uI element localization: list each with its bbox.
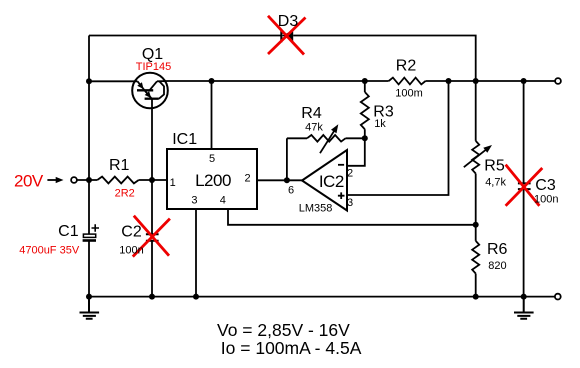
svg-text:4: 4 — [220, 195, 226, 207]
wire R3 top lead — [364, 81, 366, 92]
transistor Q1 collector diagonal — [150, 81, 157, 90]
wire IC1 pin5 — [211, 81, 213, 149]
svg-text:47k: 47k — [305, 121, 323, 133]
terminal output bottom — [555, 294, 561, 300]
svg-text:100n: 100n — [534, 193, 558, 205]
node ground R6 — [473, 294, 479, 300]
svg-text:R1: R1 — [109, 157, 130, 174]
capacitor C2 plates — [146, 234, 159, 240]
transistor Q1 inner collector path — [159, 81, 164, 99]
wire C3 top — [523, 81, 525, 183]
node R3 R4 junction — [362, 135, 368, 141]
wire main line y81 collector to R2 — [157, 80, 389, 82]
svg-text:3: 3 — [191, 195, 197, 207]
svg-text:TIP145: TIP145 — [136, 61, 171, 73]
svg-text:1k: 1k — [374, 118, 386, 130]
wire left input rail bottom — [88, 242, 90, 297]
svg-text:LM358: LM358 — [299, 202, 333, 214]
node pin5 junction — [209, 78, 215, 84]
wire main line y81 R2 to output — [426, 80, 555, 82]
svg-text:C1: C1 — [58, 223, 79, 240]
wire non-inverting input — [347, 81, 449, 195]
resistor R4 — [307, 135, 346, 142]
svg-text:100m: 100m — [395, 87, 423, 99]
cross-out X over C2 — [133, 216, 170, 257]
wire C2 top — [151, 180, 153, 234]
wire left input rail top — [88, 36, 90, 235]
capacitor C1 plate bottom — [83, 239, 96, 242]
svg-text:C3: C3 — [535, 177, 556, 194]
capacitor C1 plus sign — [92, 224, 100, 231]
diode D3 triangle — [282, 30, 293, 41]
wire R3 bottom to junction — [364, 129, 366, 138]
wire R4 right lead — [346, 137, 365, 139]
capacitor C3 plates — [518, 183, 531, 189]
transistor Q1 circle — [132, 73, 168, 109]
capacitor C1 plate top — [83, 234, 95, 237]
input arrow line — [47, 179, 56, 181]
wire inverting input — [347, 138, 365, 166]
ground right — [514, 297, 534, 319]
wire R4 left lead — [287, 137, 307, 139]
svg-text:5: 5 — [209, 153, 215, 165]
node ground C2 — [149, 294, 155, 300]
svg-text:R6: R6 — [487, 241, 508, 258]
node op-amp output — [284, 177, 290, 183]
svg-text:R4: R4 — [301, 105, 322, 122]
node ground pin3 — [193, 294, 199, 300]
svg-text:2R2: 2R2 — [115, 188, 135, 200]
diode D3 cathode bar — [280, 30, 282, 42]
svg-text:4,7k: 4,7k — [485, 177, 506, 189]
potentiometer arrow R5 — [464, 148, 488, 167]
wire feedback vertical — [286, 138, 288, 180]
svg-text:4700uF 35V: 4700uF 35V — [19, 245, 80, 257]
svg-text:100n: 100n — [119, 245, 143, 257]
wire IC1 pin3 — [195, 209, 197, 297]
potentiometer arrow R4 — [320, 129, 336, 153]
terminal input 20V — [71, 177, 77, 183]
svg-text:20V: 20V — [14, 171, 44, 190]
transistor Q1 emitter diagonal — [138, 81, 145, 90]
arrow head R4 — [331, 124, 338, 133]
node R5 R6 pin4 junction — [473, 222, 479, 228]
svg-text:Vo = 2,85V - 16V: Vo = 2,85V - 16V — [217, 320, 350, 340]
cross-out X over C3 — [506, 165, 543, 206]
wire C3 bottom — [523, 189, 525, 297]
wire R1 to IC1 pin1 — [139, 179, 167, 181]
arrow head R5 — [483, 145, 492, 153]
resistor R5 — [472, 141, 479, 174]
svg-text:1: 1 — [170, 177, 176, 189]
node R5 top — [473, 78, 479, 84]
svg-text:Io = 100mA - 4.5A: Io = 100mA - 4.5A — [221, 338, 362, 358]
svg-text:3: 3 — [347, 197, 353, 209]
transistor Q1 base bar 2 — [145, 98, 159, 100]
wire R6 bottom — [475, 274, 477, 297]
svg-text:2: 2 — [244, 172, 250, 184]
wire main line y81 left — [89, 80, 138, 82]
node left rail y81 — [86, 78, 92, 84]
op-amp U1 triangle IC2 — [302, 150, 347, 211]
node Q1 base R1 — [149, 177, 155, 183]
resistor R6 — [472, 241, 479, 274]
wire bottom ground rail — [89, 296, 555, 298]
arrow head Q1 emitter — [137, 82, 143, 89]
ground left — [80, 297, 100, 319]
cross-out X over D3 — [268, 16, 306, 55]
node ground C1 — [86, 294, 92, 300]
resistor R1 — [97, 177, 138, 184]
node ground right — [521, 294, 527, 300]
wire top rail left of D3 — [89, 35, 281, 37]
wire C2 bottom — [151, 241, 153, 297]
IC1 L200 box — [167, 149, 257, 209]
svg-text:D3: D3 — [278, 13, 299, 30]
svg-text:820: 820 — [488, 260, 506, 272]
op-amp minus sign — [338, 164, 344, 166]
wire R5 bottom to R6 top — [475, 174, 477, 241]
arrow head Q1 inner emitter — [145, 91, 152, 98]
svg-text:2: 2 — [347, 167, 353, 179]
transistor Q1 inner emitter diagonal — [145, 91, 152, 99]
wire top rail right of D3 — [293, 36, 476, 82]
svg-text:R2: R2 — [396, 58, 417, 75]
resistor R3 — [361, 92, 369, 129]
wire Q1 base down — [151, 99, 153, 180]
resistor R2 — [389, 78, 426, 85]
wire R5 top lead — [475, 81, 477, 141]
op-amp plus sign — [338, 192, 345, 199]
svg-text:L200: L200 — [195, 171, 231, 190]
terminal output top — [555, 78, 561, 84]
svg-text:6: 6 — [288, 185, 294, 197]
svg-text:C2: C2 — [121, 224, 142, 241]
wire IC1 pin2 to op-amp output — [257, 179, 302, 181]
node input — [86, 177, 92, 183]
node R2 right — [446, 78, 452, 84]
input arrow head — [56, 177, 64, 183]
node C3 top — [521, 78, 527, 84]
svg-text:IC1: IC1 — [172, 131, 197, 148]
svg-text:R5: R5 — [484, 157, 505, 174]
wire input to R1 — [77, 179, 97, 181]
wire IC1 pin4 — [228, 209, 476, 225]
node R3 top — [362, 78, 368, 84]
svg-text:IC2: IC2 — [319, 172, 344, 191]
transistor Q1 base bar 1 — [137, 89, 153, 91]
